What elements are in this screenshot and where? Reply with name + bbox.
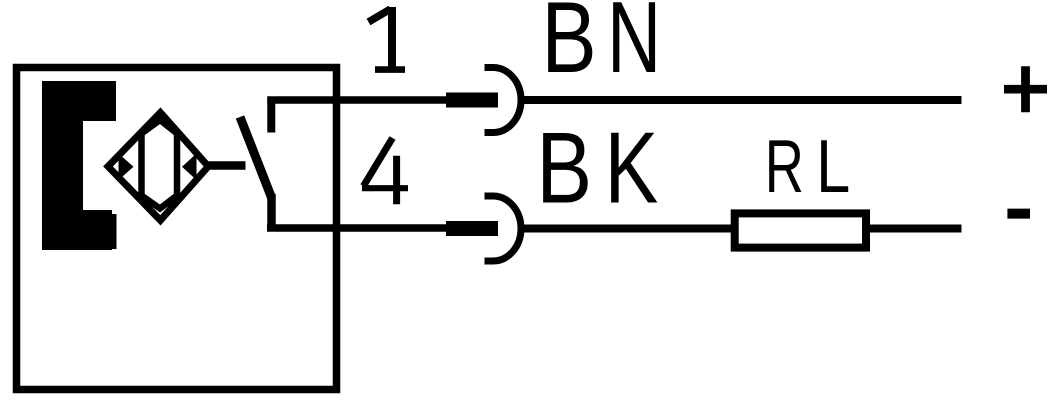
wire BK to resistor xyxy=(518,225,734,233)
pin 1 terminal bar xyxy=(446,93,498,108)
sensor element bracket (active face) xyxy=(42,81,117,250)
connector socket pin1 xyxy=(485,67,522,132)
plus terminal xyxy=(1004,66,1047,112)
wire resistor to minus xyxy=(866,225,962,233)
minus terminal xyxy=(1007,209,1030,219)
right triangle marker xyxy=(182,154,197,181)
actuator stub from diamond to switch xyxy=(209,161,246,170)
wire rail pin4 xyxy=(267,224,450,232)
label pin 1 xyxy=(369,7,406,71)
svg-text:K: K xyxy=(605,112,659,225)
svg-text:L: L xyxy=(816,124,850,208)
switch S1 pivot stub xyxy=(267,194,276,232)
switch S1 fixed contact stub xyxy=(267,97,275,133)
pin 4 terminal bar xyxy=(446,221,498,236)
inner hexagon (sensing element) xyxy=(142,120,178,209)
label RL (load resistor) xyxy=(765,124,851,208)
svg-text:N: N xyxy=(607,0,661,94)
svg-text:B: B xyxy=(536,111,592,224)
svg-text:R: R xyxy=(765,124,804,208)
label BK (black wire) xyxy=(536,111,658,225)
svg-text:B: B xyxy=(541,0,596,94)
sensor body box U1 xyxy=(17,68,337,390)
connector socket pin4 xyxy=(485,196,522,261)
switch S1 lever xyxy=(240,117,272,198)
label pin 4 xyxy=(362,138,408,204)
left triangle marker xyxy=(119,154,134,181)
wire BN to plus xyxy=(518,96,962,104)
wire rail pin1 xyxy=(267,96,450,104)
label BN (brown wire) xyxy=(541,0,661,94)
proximity sensor diamond xyxy=(108,113,208,221)
resistor RL xyxy=(735,213,866,247)
